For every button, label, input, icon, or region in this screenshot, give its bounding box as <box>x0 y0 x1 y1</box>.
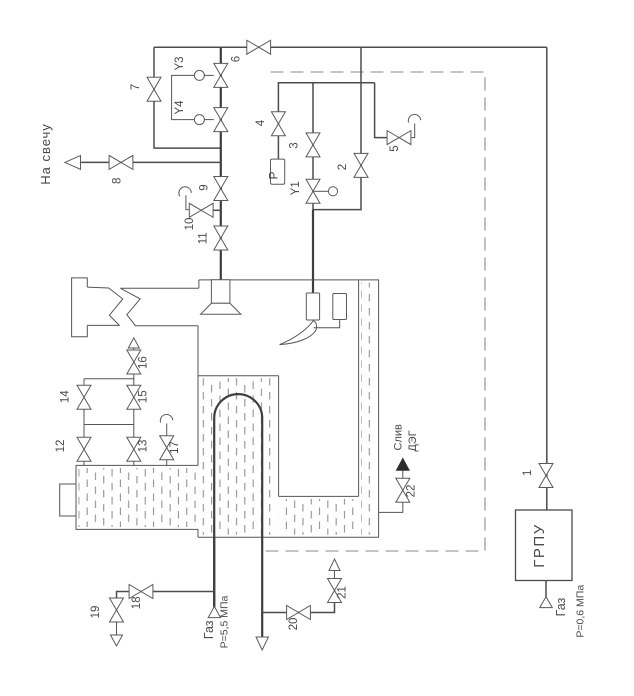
svg-text:Р=0,6 МПа: Р=0,6 МПа <box>574 585 586 638</box>
valve 6 <box>247 40 271 54</box>
valve 15 <box>127 385 141 409</box>
U-tube fire coil <box>214 394 262 637</box>
vessel left band outline <box>76 465 198 537</box>
valve 1 <box>539 464 553 488</box>
svg-text:Газ: Газ <box>554 597 568 616</box>
svg-text:4: 4 <box>255 119 267 126</box>
valve 4 <box>271 112 285 136</box>
valve 16 column <box>133 348 135 465</box>
pipe valve10 vent stub <box>186 195 189 209</box>
svg-text:Слив: Слив <box>393 424 405 451</box>
pipe pilot feed to igniter <box>312 210 314 294</box>
pipe valve10 stub <box>213 209 221 211</box>
drain pipe to valve 22 <box>379 502 403 512</box>
drain black arrow <box>396 458 409 470</box>
svg-text:Газ: Газ <box>202 620 216 639</box>
igniter flame <box>280 321 317 345</box>
svg-text:Y4: Y4 <box>174 100 186 115</box>
igniter connecting line <box>314 320 340 328</box>
chimney cap <box>72 278 88 337</box>
bracket Y3 Y4 <box>172 75 195 119</box>
valve 19 arrow <box>111 635 123 646</box>
svg-text:15: 15 <box>138 390 150 403</box>
valve Y1 <box>306 179 338 203</box>
hatch fill middle column <box>200 378 277 535</box>
connector 14-15 top <box>84 378 134 380</box>
valve 12 <box>77 437 91 461</box>
valve 10 <box>189 203 213 217</box>
connector mid <box>84 424 134 426</box>
svg-text:ДЭГ: ДЭГ <box>407 430 419 451</box>
vent arc valve 17 <box>160 414 172 422</box>
instrument P box <box>271 159 285 184</box>
enclosure dashed boundary <box>265 72 485 551</box>
valve 18 <box>129 585 153 599</box>
pipe valve5 vent stub <box>411 124 415 138</box>
valve 17 vent stub <box>166 424 168 437</box>
svg-text:2: 2 <box>337 164 349 170</box>
hatch fill left band <box>79 468 197 527</box>
svg-text:1: 1 <box>522 470 534 476</box>
pipe valve7 bypass branch <box>154 47 221 148</box>
vessel left support stub <box>60 484 76 516</box>
outlet arrow <box>256 637 268 650</box>
svg-text:11: 11 <box>198 232 210 244</box>
svg-text:P: P <box>267 171 281 179</box>
svg-text:20: 20 <box>288 618 300 631</box>
valve 13 <box>127 437 141 461</box>
valve 9 <box>214 177 228 201</box>
vessel top edge <box>199 279 379 281</box>
valve 2 <box>354 153 368 177</box>
svg-text:9: 9 <box>198 184 210 190</box>
flare arrow <box>65 156 81 170</box>
svg-text:19: 19 <box>90 606 102 619</box>
valve 14 column <box>83 379 85 466</box>
vessel bottom edge <box>198 536 379 538</box>
gas inlet line <box>213 537 215 606</box>
pipe below valve 19 <box>116 622 118 635</box>
valve 8 <box>109 155 133 169</box>
valve 21 <box>328 579 342 603</box>
svg-text:6: 6 <box>231 56 243 62</box>
valve 11 <box>214 226 228 250</box>
vent arc valve 5 <box>408 114 420 122</box>
valve 20 <box>287 606 311 620</box>
pipe drop from top line to header <box>360 47 362 83</box>
valve 19 <box>110 598 124 622</box>
svg-text:13: 13 <box>138 440 150 453</box>
pipe top header to flare system <box>154 46 547 48</box>
vent arc valve 10 <box>179 187 191 196</box>
valve Y3 <box>194 63 227 87</box>
svg-text:8: 8 <box>112 178 124 184</box>
pipe pilot branch valves 3 Y1 <box>312 83 314 210</box>
pipe branch valve 2 <box>313 83 361 210</box>
pipe valve 20 21 <box>262 603 334 613</box>
pipe branch valve 4 to P <box>277 83 279 159</box>
svg-text:14: 14 <box>60 390 72 403</box>
drain stub above valve 22 <box>402 470 404 478</box>
hatch fill right wall <box>361 283 377 535</box>
pipe branch valve 5 <box>375 83 388 138</box>
svg-text:Y1: Y1 <box>290 181 302 195</box>
svg-text:21: 21 <box>337 586 349 599</box>
valve 7 <box>147 77 161 101</box>
pipe right drop to GRPU <box>546 47 548 510</box>
valve 17 drop <box>166 459 168 465</box>
vessel inner right wall <box>358 280 360 496</box>
valve 22 <box>396 478 410 502</box>
flue duct left walls converging <box>87 287 123 325</box>
svg-text:16: 16 <box>138 356 150 369</box>
valve 16 <box>127 350 141 374</box>
pipe valve 18 19 <box>117 592 215 599</box>
pipe above valve 21 <box>334 571 336 579</box>
pipe flare line <box>81 161 221 163</box>
GRPU inlet arrow <box>540 597 553 608</box>
pipe main fuel column <box>220 47 222 280</box>
pipe below GRPU <box>545 581 547 597</box>
vessel interior bottom edge <box>279 495 359 497</box>
svg-text:12: 12 <box>55 440 67 453</box>
svg-text:Y3: Y3 <box>174 56 186 70</box>
vessel middle column top edge <box>198 375 279 377</box>
valve Y4 <box>194 108 227 132</box>
valve 3 <box>306 133 320 157</box>
GRPU box <box>516 510 573 581</box>
vessel top left stub to flue <box>198 280 200 288</box>
valve 21 arrow <box>329 559 340 571</box>
igniter tube right <box>333 294 347 320</box>
igniter tube left <box>306 293 319 320</box>
valve 5 <box>387 131 411 145</box>
svg-text:5: 5 <box>389 145 401 151</box>
pipe instrument header <box>278 82 375 84</box>
hatch fill bottom right band <box>279 499 357 535</box>
valve 17 <box>160 436 174 460</box>
flue duct top wall with break <box>121 288 199 325</box>
vessel combustion chamber left wall <box>197 326 199 466</box>
svg-text:17: 17 <box>169 441 181 454</box>
svg-text:10: 10 <box>184 218 196 231</box>
svg-text:На свечу: На свечу <box>38 123 53 185</box>
svg-text:Р=5,5 МПа: Р=5,5 МПа <box>219 595 231 648</box>
inlet arrow <box>208 606 220 617</box>
burner <box>201 280 241 315</box>
svg-text:3: 3 <box>288 142 300 148</box>
svg-text:18: 18 <box>131 596 143 609</box>
valve 14 <box>77 385 91 409</box>
svg-text:22: 22 <box>406 485 418 498</box>
vessel right outer wall <box>378 280 380 537</box>
svg-text:ГРПУ: ГРПУ <box>531 523 548 567</box>
valve 16 arrow to flue <box>128 338 139 348</box>
vessel middle column right edge <box>278 376 280 497</box>
svg-text:7: 7 <box>130 84 142 90</box>
